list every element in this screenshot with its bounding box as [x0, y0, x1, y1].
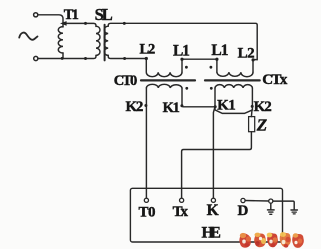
svg-text:1: 1 [182, 43, 190, 60]
svg-text:L: L [102, 5, 113, 24]
svg-text:Z: Z [256, 115, 267, 134]
svg-text:1: 1 [72, 7, 79, 23]
svg-text:x: x [180, 204, 188, 220]
svg-text:T0: T0 [139, 204, 156, 220]
svg-text:1: 1 [221, 42, 229, 59]
svg-text:CT0: CT0 [114, 73, 138, 89]
svg-text:2: 2 [247, 45, 255, 61]
svg-text:2: 2 [136, 99, 144, 115]
svg-text:2: 2 [264, 99, 272, 115]
svg-text:K: K [207, 202, 219, 219]
svg-text:HE: HE [201, 225, 221, 242]
svg-text:1: 1 [228, 98, 236, 114]
svg-text:2: 2 [148, 42, 155, 58]
svg-text:CTx: CTx [262, 72, 288, 88]
svg-text:D: D [237, 203, 248, 219]
svg-text:L: L [238, 45, 248, 61]
svg-text:1: 1 [173, 100, 180, 116]
